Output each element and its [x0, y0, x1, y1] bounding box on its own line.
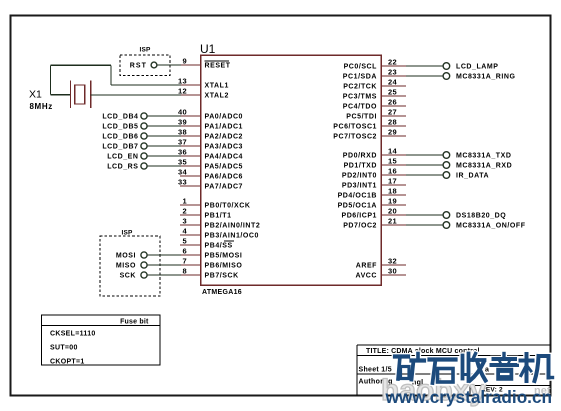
svg-text:MC8331A_ON/OFF: MC8331A_ON/OFF: [456, 223, 526, 230]
watermark chinese character shi: [430, 360, 456, 384]
svg-text:15: 15: [388, 157, 397, 166]
svg-text:LCD_DB4: LCD_DB4: [102, 114, 138, 121]
node LCD_DB5 terminal circle: [141, 123, 147, 129]
wire LCD_EN to U1: [147, 155, 181, 157]
U1 pin 24 stub: [381, 85, 406, 87]
U1 pin 32 stub: [381, 264, 406, 266]
U1 pin 20 stub: [381, 214, 406, 216]
watermark chinese character yin: [492, 354, 518, 382]
IC U1 ATMEGA16 body: [201, 55, 382, 285]
svg-text:7: 7: [183, 257, 187, 266]
wire RST to U1 pin 9: [157, 64, 181, 66]
svg-text:MC8331A_RING: MC8331A_RING: [456, 74, 516, 81]
U1 pin 21 stub: [381, 224, 406, 226]
svg-text:PD2/INT0: PD2/INT0: [342, 173, 377, 180]
U1 pin 8 stub: [180, 274, 201, 276]
svg-text:17: 17: [388, 177, 397, 186]
wire crystal right lead to U1 pin 12 XTAL2: [91, 94, 181, 96]
svg-text:LCD_EN: LCD_EN: [107, 154, 138, 161]
svg-text:RST: RST: [130, 63, 147, 70]
U1 pin 7 stub: [180, 264, 201, 266]
svg-text:XTAL2: XTAL2: [205, 93, 229, 100]
svg-text:MOSI: MOSI: [116, 253, 136, 260]
node LCD_RS terminal circle: [141, 163, 147, 169]
svg-text:PC5/TDI: PC5/TDI: [346, 114, 377, 121]
svg-text:PC2/TCK: PC2/TCK: [343, 84, 377, 91]
svg-text:35: 35: [178, 158, 187, 167]
node LCD_DB7 terminal circle: [141, 143, 147, 149]
svg-text:PD6/ICP1: PD6/ICP1: [341, 213, 377, 220]
U1 pin 18 stub: [381, 194, 406, 196]
svg-text:13: 13: [178, 77, 187, 86]
svg-text:32: 32: [388, 257, 397, 266]
svg-text:4: 4: [183, 227, 188, 236]
wire U1 to MC8331A_TXD: [406, 154, 443, 156]
U1 pin 30 stub: [381, 274, 406, 276]
node LCD_DB6 terminal circle: [141, 133, 147, 139]
svg-text:Fuse bit: Fuse bit: [120, 319, 149, 326]
svg-text:PB4/SS: PB4/SS: [205, 243, 233, 250]
svg-text:MC8331A_TXD: MC8331A_TXD: [456, 153, 511, 160]
svg-text:39: 39: [178, 118, 187, 127]
U1 pin 27 stub: [381, 115, 406, 117]
svg-text:25: 25: [388, 88, 397, 97]
svg-text:PA2/ADC2: PA2/ADC2: [205, 134, 244, 141]
U1 pin 16 stub: [381, 174, 406, 176]
wire MOSI to U1: [147, 254, 181, 256]
connector ISP (programming header) dashed box: [100, 236, 160, 296]
svg-text:40: 40: [178, 108, 187, 117]
wire U1 to DS18B20_DQ: [406, 214, 443, 216]
svg-text:3: 3: [183, 217, 187, 226]
svg-text:PC1/SDA: PC1/SDA: [343, 74, 377, 81]
svg-text:DS18B20_DQ: DS18B20_DQ: [456, 213, 506, 220]
node MC8331A_TXD terminal circle: [443, 152, 450, 159]
svg-text:ISP: ISP: [121, 230, 133, 237]
REV box: [470, 385, 550, 395]
U1 pin 19 stub: [381, 204, 406, 206]
svg-text:PB1/T1: PB1/T1: [205, 213, 232, 220]
svg-text:27: 27: [388, 108, 397, 117]
wire U1 to MC8331A_RING: [406, 75, 443, 77]
watermark chinese character shou: [463, 354, 486, 382]
svg-text:PC4/TDO: PC4/TDO: [343, 104, 377, 111]
U1 pin 25 stub: [381, 95, 406, 97]
U1 pin 4 stub: [180, 234, 201, 236]
svg-text:37: 37: [178, 138, 187, 147]
U1 pin 15 stub: [381, 164, 406, 166]
watermark chinese character kuang: [395, 354, 426, 380]
svg-text:30: 30: [388, 267, 397, 276]
node DS18B20_DQ terminal circle: [443, 212, 450, 219]
wire U1 to IR_DATA: [406, 174, 443, 176]
U1 pin 23 stub: [381, 75, 406, 77]
U1 pin 39 stub: [180, 125, 201, 127]
svg-text:PB6/MISO: PB6/MISO: [205, 263, 243, 270]
U1 pin 5 stub: [180, 244, 201, 246]
wire XTAL1 net: from U1 pin 13 to bend: [111, 84, 181, 86]
U1 pin 35 stub: [180, 165, 201, 167]
note box Fuse bit: [42, 315, 161, 365]
U1 pin 6 stub: [180, 254, 201, 256]
svg-text:20: 20: [388, 207, 397, 216]
svg-text:PA5/ADC5: PA5/ADC5: [205, 164, 244, 171]
U1 pin 36 stub: [180, 155, 201, 157]
svg-text:8: 8: [183, 267, 187, 276]
U1 pin 22 stub: [381, 65, 406, 67]
wire LCD_DB5 to U1: [147, 125, 181, 127]
node LCD_EN terminal circle: [141, 153, 147, 159]
node MC8331A_ON/OFF terminal circle: [443, 222, 450, 229]
U1 pin 2 stub: [180, 214, 201, 216]
svg-text:PA6/ADC6: PA6/ADC6: [205, 174, 244, 181]
U1 pin 14 stub: [381, 154, 406, 156]
U1 pin 3 stub: [180, 224, 201, 226]
svg-text:LCD_DB7: LCD_DB7: [102, 144, 138, 151]
svg-text:29: 29: [388, 128, 397, 137]
svg-text:PD4/OC1B: PD4/OC1B: [338, 193, 377, 200]
svg-text:22: 22: [388, 58, 397, 67]
node MC8331A_RXD terminal circle: [443, 162, 450, 169]
svg-text:SCK: SCK: [120, 273, 136, 280]
wire SCK to U1: [147, 274, 181, 276]
svg-text:33: 33: [178, 178, 187, 187]
wire LCD_DB6 to U1: [147, 135, 181, 137]
U1 pin 29 stub: [381, 135, 406, 137]
svg-text:38: 38: [178, 128, 187, 137]
svg-text:PA7/ADC7: PA7/ADC7: [205, 184, 244, 191]
svg-text:1: 1: [183, 197, 187, 206]
svg-text:5: 5: [183, 237, 187, 246]
svg-text:16: 16: [388, 167, 397, 176]
svg-text:CKSEL=1110: CKSEL=1110: [50, 331, 96, 338]
svg-text:PD1/TXD: PD1/TXD: [344, 163, 377, 170]
title block frame: [357, 345, 551, 396]
node LCD_LAMP terminal circle: [443, 63, 450, 70]
svg-text:U1: U1: [200, 42, 216, 56]
U1 pin 17 stub: [381, 184, 406, 186]
connector ISP (reset header) dashed box: [120, 55, 170, 76]
U1 pin 12 stub: [180, 94, 201, 96]
svg-text:ISP: ISP: [139, 47, 151, 54]
svg-text:PD7/OC2: PD7/OC2: [343, 223, 377, 230]
svg-text:9: 9: [183, 57, 187, 66]
wire XTAL1 net left vertical down to crystal: [50, 65, 52, 94]
svg-text:www.crystalradio.cn: www.crystalradio.cn: [385, 387, 553, 407]
node SCK terminal circle: [141, 272, 147, 278]
U1 pin 40 stub: [180, 115, 201, 117]
node IR_DATA terminal circle: [443, 172, 450, 179]
U1 pin 9 stub: [180, 64, 201, 66]
svg-text:2: 2: [183, 207, 187, 216]
svg-text:SUT=00: SUT=00: [50, 345, 78, 352]
svg-text:AVCC: AVCC: [355, 273, 377, 280]
U1 pin 13 stub: [180, 84, 201, 86]
svg-text:PB5/MOSI: PB5/MOSI: [205, 253, 243, 260]
wire LCD_DB7 to U1: [147, 145, 181, 147]
svg-text:19: 19: [388, 197, 397, 206]
svg-text:LCD_DB5: LCD_DB5: [102, 124, 138, 131]
watermark chinese character ji: [521, 354, 553, 381]
svg-text:36: 36: [178, 148, 187, 157]
wire LCD_RS to U1: [147, 165, 181, 167]
svg-text:PC3/TMS: PC3/TMS: [343, 94, 377, 101]
svg-text:PB0/T0/XCK: PB0/T0/XCK: [205, 203, 251, 210]
U1 pin 1 stub: [180, 204, 201, 206]
svg-text:21: 21: [388, 217, 397, 226]
svg-text:MISO: MISO: [116, 263, 136, 270]
svg-text:18: 18: [388, 187, 397, 196]
U1 pin 38 stub: [180, 135, 201, 137]
svg-text:XTAL1: XTAL1: [205, 83, 229, 90]
svg-text:28: 28: [388, 118, 397, 127]
svg-text:12: 12: [178, 87, 187, 96]
svg-text:RESET: RESET: [205, 63, 231, 70]
svg-text:LCD_RS: LCD_RS: [107, 164, 138, 171]
U1 pin 28 stub: [381, 125, 406, 127]
wire U1 to MC8331A_ON/OFF: [406, 224, 443, 226]
node MOSI terminal circle: [141, 252, 147, 258]
wire U1 to LCD_LAMP: [406, 65, 443, 67]
wire XTAL1 net top horizontal: [51, 64, 111, 66]
svg-text:ATMEGA16: ATMEGA16: [202, 289, 242, 296]
svg-text:PD5/OC1A: PD5/OC1A: [338, 203, 377, 210]
svg-text:PD3/INT1: PD3/INT1: [342, 183, 377, 190]
svg-text:PA1/ADC1: PA1/ADC1: [205, 124, 244, 131]
svg-text:PB3/AIN1/OC0: PB3/AIN1/OC0: [205, 233, 259, 240]
svg-text:MC8331A_RXD: MC8331A_RXD: [456, 163, 512, 170]
crystal X1 symbol: [71, 81, 91, 109]
svg-text:PB2/AIN0/INT2: PB2/AIN0/INT2: [205, 223, 261, 230]
svg-text:PC0/SCL: PC0/SCL: [344, 64, 378, 71]
node MISO terminal circle: [141, 262, 147, 268]
svg-text:14: 14: [388, 147, 397, 156]
svg-text:PA3/ADC3: PA3/ADC3: [205, 144, 244, 151]
svg-text:AREF: AREF: [356, 263, 377, 270]
wire U1 to MC8331A_RXD: [406, 164, 443, 166]
svg-text:24: 24: [388, 78, 397, 87]
U1 pin 33 stub: [180, 185, 201, 187]
node LCD_DB4 terminal circle: [141, 113, 147, 119]
svg-text:IR_DATA: IR_DATA: [456, 173, 489, 180]
wire crystal left lead: [51, 94, 70, 96]
wire MISO to U1: [147, 264, 181, 266]
svg-text:PA0/ADC0: PA0/ADC0: [205, 114, 244, 121]
svg-text:PD0/RXD: PD0/RXD: [343, 153, 377, 160]
svg-text:26: 26: [388, 98, 397, 107]
svg-text:PC6/TOSC1: PC6/TOSC1: [333, 124, 377, 131]
svg-text:X1: X1: [29, 89, 42, 101]
U1 pin 26 stub: [381, 105, 406, 107]
wire XTAL1 net vertical bend: [110, 65, 112, 85]
wire LCD_DB4 to U1: [147, 115, 181, 117]
node MC8331A_RING terminal circle: [443, 73, 450, 80]
svg-text:8MHz: 8MHz: [30, 102, 53, 111]
svg-text:CKOPT=1: CKOPT=1: [50, 359, 85, 366]
svg-text:LCD_LAMP: LCD_LAMP: [456, 64, 499, 71]
svg-text:PB7/SCK: PB7/SCK: [205, 273, 239, 280]
svg-text:Sheet 1/5: Sheet 1/5: [359, 367, 392, 374]
svg-text:PC7/TOSC2: PC7/TOSC2: [333, 134, 377, 141]
svg-text:34: 34: [178, 168, 187, 177]
svg-text:23: 23: [388, 68, 397, 77]
U1 pin 34 stub: [180, 175, 201, 177]
U1 pin 37 stub: [180, 145, 201, 147]
svg-text:LCD_DB6: LCD_DB6: [102, 134, 138, 141]
svg-text:PA4/ADC4: PA4/ADC4: [205, 154, 244, 161]
node RST terminal circle: [151, 62, 157, 68]
svg-text:6: 6: [183, 247, 187, 256]
